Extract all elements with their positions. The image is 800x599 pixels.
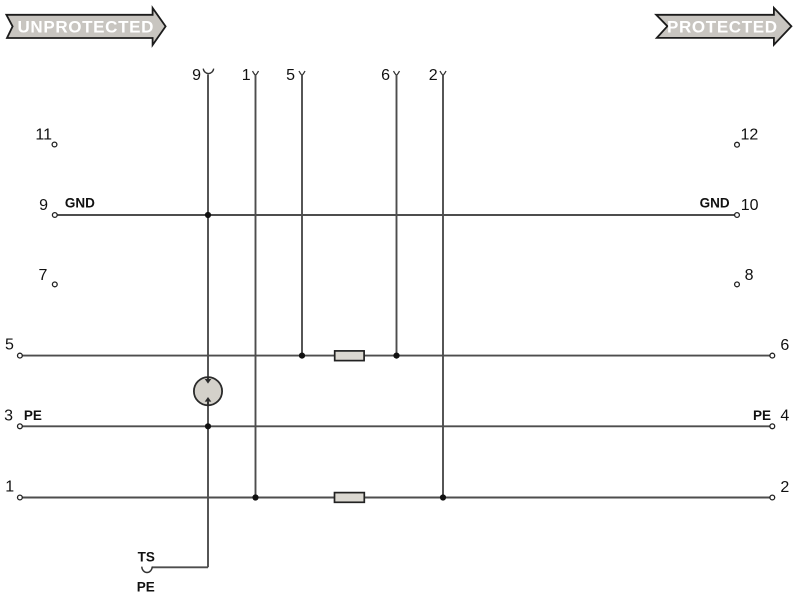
svg-text:TS: TS [138, 549, 155, 564]
terminal 11 [52, 142, 57, 147]
terminal 12 [735, 142, 740, 147]
wire from plug 5 down to line 5-6 [301, 75, 303, 355]
UNPROTECTED arrow banner [6, 8, 165, 45]
PE bus wire (terminal 3 to terminal 4) [22, 425, 769, 427]
PROTECTED arrow banner [656, 8, 791, 45]
svg-text:1: 1 [242, 67, 251, 84]
junction dot line 5 [299, 353, 305, 359]
svg-text:PE: PE [24, 408, 42, 423]
junction dot PE x GDT [205, 423, 211, 429]
junction dot GND x line 9 [205, 212, 211, 218]
wire line 5 to 6 [22, 355, 769, 357]
svg-text:PROTECTED: PROTECTED [667, 17, 778, 36]
svg-text:10: 10 [741, 197, 759, 214]
junction dot line 6 [393, 353, 399, 359]
plug contact 1 (fork symbol) [253, 71, 259, 75]
wire from GDT down to TS bend [207, 405, 209, 567]
GND bus wire (terminal 9 to terminal 10) [57, 214, 734, 216]
terminal 8 [735, 282, 740, 287]
svg-text:2: 2 [429, 67, 438, 84]
svg-text:GND: GND [65, 196, 95, 211]
svg-text:7: 7 [38, 267, 47, 284]
wire line 1 to 2 [22, 497, 769, 499]
svg-text:1: 1 [5, 479, 14, 496]
plug contact 5 (fork symbol) [299, 71, 305, 75]
wire from plug 9 down to GDT [207, 74, 209, 377]
svg-text:2: 2 [780, 479, 789, 496]
svg-text:12: 12 [741, 126, 759, 143]
terminal 6 [770, 353, 775, 358]
wire from plug 1 down to line 1-2 [255, 75, 257, 497]
gas discharge tube (surge arrester) [194, 377, 222, 405]
junction dot line 1 [252, 494, 258, 500]
svg-text:8: 8 [745, 267, 754, 284]
svg-text:UNPROTECTED: UNPROTECTED [18, 17, 155, 36]
svg-text:PE: PE [753, 408, 771, 423]
terminal 10 [735, 213, 740, 218]
svg-text:9: 9 [192, 67, 201, 84]
plug contact 9 (socket symbol) [203, 69, 214, 74]
plug contact 6 (fork symbol) [394, 71, 400, 75]
svg-text:3: 3 [4, 407, 13, 424]
svg-text:6: 6 [780, 337, 789, 354]
svg-text:PE: PE [137, 579, 155, 594]
terminal 9 [52, 213, 57, 218]
wire from plug 2 down to line 1-2 [442, 75, 444, 497]
svg-text:5: 5 [286, 67, 295, 84]
terminal 4 [770, 424, 775, 429]
fuse F2 (decoupling element, line 1-2) [335, 493, 365, 503]
svg-text:4: 4 [780, 408, 789, 425]
terminal 2 [770, 495, 775, 500]
fuse F1 (decoupling element, line 5-6) [335, 351, 364, 361]
svg-text:GND: GND [700, 196, 730, 211]
wire from plug 6 down to line 5-6 [396, 75, 398, 355]
terminal 1 [18, 495, 23, 500]
junction dot line 2 [440, 494, 446, 500]
terminal 3 [18, 424, 23, 429]
terminal 7 [52, 282, 57, 287]
svg-text:11: 11 [35, 126, 52, 143]
wire TS horizontal segment [152, 566, 208, 568]
svg-text:9: 9 [39, 197, 48, 214]
terminal 5 [18, 353, 23, 358]
plug contact 2 (fork symbol) [440, 71, 446, 75]
svg-text:6: 6 [381, 67, 390, 84]
svg-text:5: 5 [5, 337, 14, 354]
TS socket symbol [142, 567, 152, 573]
